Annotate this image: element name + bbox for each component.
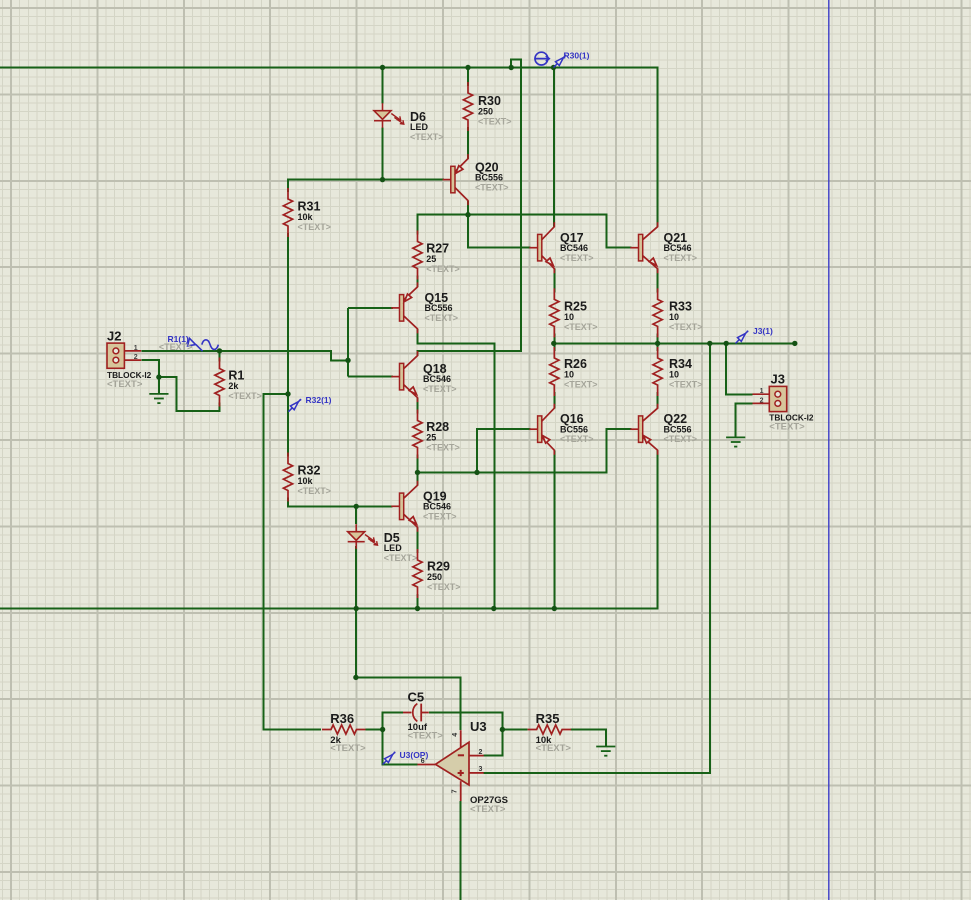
sheet border (blue) [828,0,830,900]
svg-text:<TEXT>: <TEXT> [410,132,444,142]
wire Q17 base from node y=214.7 [468,215,531,248]
wire R1 top from J2 pin1 node [219,351,221,362]
wire R29 bottom to bottom rail [417,594,419,609]
svg-text:<TEXT>: <TEXT> [669,322,703,332]
junction node R32(1) [285,391,290,396]
svg-text:10k: 10k [298,476,314,486]
svg-text:U3: U3 [470,719,487,734]
svg-text:2: 2 [760,397,764,404]
resistor R1 [215,358,224,407]
svg-text:4: 4 [452,733,459,737]
wire R33-R34 node [657,333,659,351]
resistor R33 [653,288,662,337]
wire Q15 base stub [348,307,393,309]
wire Q15 collector down to bottom rail via x=494.3 [418,329,495,609]
wire R35 right to ground [571,730,606,747]
label R30 250 [478,94,512,127]
wire R1 bottom loop to J2 pin2 ground node [159,377,220,411]
wire R27 bottom to Q15 emitter [417,276,419,288]
wire R25-R26 node [553,333,555,351]
wire node y=214.7 from R27 top across to Q21 base [418,215,632,248]
label Q19 BC546 [423,489,457,521]
transistor Q18 BC546 (NPN) [391,351,417,402]
junction top rail / D6 [380,65,385,70]
svg-text:<TEXT>: <TEXT> [426,264,460,274]
label Q21 BC546 [664,231,698,263]
transistor Q22 BC556 (PNP) [630,404,657,455]
label Q16 BC556 [560,412,594,444]
wire bottom negative rail y=608.5 with rise to Q22 emitter [0,450,658,608]
svg-text:25: 25 [426,433,436,443]
resistor R28 [413,410,422,459]
svg-text:BC556: BC556 [475,173,503,183]
svg-text:<TEXT>: <TEXT> [427,582,461,592]
svg-text:2: 2 [134,354,138,361]
wire Q19 emitter to R29 [417,527,419,553]
junction supply corner at opamp [353,675,358,680]
svg-text:BC546: BC546 [423,502,451,512]
transistor Q19 BC546 (NPN) [391,481,417,532]
junction top rail / Q17 collector [551,65,556,70]
voltage probe R30(1) [554,55,567,68]
wire Q17 collector up to top rail [553,68,555,227]
svg-text:<TEXT>: <TEXT> [107,379,143,390]
svg-text:<TEXT>: <TEXT> [475,182,509,192]
label U3 OP27GS [470,795,508,815]
transistor Q16 BC556 (PNP) [529,404,554,455]
svg-text:<TEXT>: <TEXT> [564,322,598,332]
svg-text:<TEXT>: <TEXT> [564,380,598,390]
svg-text:<TEXT>: <TEXT> [228,391,262,401]
svg-text:BC556: BC556 [560,424,588,434]
resistor R35 [528,725,572,734]
resistor R29 [413,549,422,598]
label Q17 BC546 [560,231,594,263]
wire opamp pin3 to mid rail [484,343,711,773]
wire node R32(1) branch left and down to R36 [263,394,321,730]
wire driver node y=472.4 across to Q22 base [418,429,632,472]
pin number U3-6 [421,758,425,765]
junction Q20 collector node [465,212,470,217]
junction mid rail / R25 R26 [551,341,556,346]
label U3 [470,719,487,734]
wire opamp pin2 to R35 node [484,730,503,756]
transistor Q17 BC546 (NPN) [529,222,554,273]
wire hop from rail junction over to long vertical x=521 feeding Q18 collector line [418,59,521,356]
transistor Q21 BC546 (NPN) [630,222,657,273]
junction driver node / Q16 base [474,470,479,475]
wire R31 top to Q20 base [288,180,444,192]
connector J3 TBLOCK-I2 [753,386,787,411]
transistor Q15 BC556 (PNP) [391,282,417,333]
label J2 TBLOCK-I2 [107,370,152,390]
generator probe R1(1) [188,338,219,351]
svg-text:10: 10 [564,312,574,322]
svg-text:250: 250 [478,107,493,117]
wire Q16 emitter down to bottom rail [553,450,555,608]
svg-text:<TEXT>: <TEXT> [159,342,193,352]
svg-text:R36: R36 [330,711,354,726]
svg-text:<TEXT>: <TEXT> [470,804,506,815]
ground symbol at J2 [149,394,168,403]
wire R35 node right [502,729,527,731]
svg-text:<TEXT>: <TEXT> [384,553,418,563]
wire C5 right to R35 node [429,713,503,730]
resistor R36 [322,725,366,734]
wire R36 right to node [366,729,383,731]
svg-text:C5: C5 [408,689,425,704]
wire R26 to Q16 collector [553,392,555,408]
resistor R34 [653,347,662,396]
svg-text:10k: 10k [298,212,314,222]
wire R32 bottom to Q19 base [288,498,393,507]
svg-text:<TEXT>: <TEXT> [560,434,594,444]
label J2 [107,328,121,343]
label Q20 BC556 [475,160,509,192]
label C5 10uf [408,689,444,741]
svg-text:<TEXT>: <TEXT> [423,511,457,521]
junction D6 cathode / Q20 base [380,177,385,182]
wire Q21 emitter to R33 [657,269,659,293]
junction top rail / hop [509,65,514,70]
label Q22 BC556 [664,412,698,444]
wire J3 pin1 from mid rail [726,343,752,394]
ground symbol at J3 [726,437,745,446]
label R1 2k [228,368,262,401]
svg-text:BC546: BC546 [560,243,588,253]
voltage probe J3(1) [736,330,749,343]
svg-text:LED: LED [384,543,403,553]
capacitor C5 [403,704,429,722]
label J3 [771,372,785,387]
svg-text:<TEXT>: <TEXT> [769,422,805,433]
wire J2 pin2 to ground node [141,360,159,394]
svg-text:J3(1): J3(1) [753,326,773,336]
wire Q15 base vertical [347,308,349,377]
wire R31 bottom down to R32 top [287,233,289,457]
label Q18 BC546 [423,362,457,394]
svg-text:J3: J3 [771,372,785,387]
op-amp U3 OP27GS [417,730,483,801]
wire J3 pin2 to ground [736,403,753,437]
junction mid rail / J3 [724,341,729,346]
svg-text:U3(OP): U3(OP) [400,750,429,760]
wire Q18 base stub [348,376,393,378]
svg-text:R35: R35 [536,711,560,726]
svg-text:BC546: BC546 [664,243,692,253]
junction bottom rail / D5 [354,606,359,611]
junction bottom rail / Q15 collector [491,606,496,611]
junction mid rail end [792,341,797,346]
svg-text:<TEXT>: <TEXT> [298,486,332,496]
pin number J2-2 [134,354,138,361]
svg-text:<TEXT>: <TEXT> [426,443,460,453]
svg-text:10: 10 [669,312,679,322]
svg-text:BC556: BC556 [425,303,453,313]
svg-text:2: 2 [479,749,483,756]
wire D6 anode from top rail [382,68,384,104]
label J3 TBLOCK-I2 [769,413,814,433]
svg-text:<TEXT>: <TEXT> [478,117,512,127]
wire Q17 emitter to R25 [553,269,555,293]
wire Q20 collector to mid node y=214.7 [467,201,469,215]
current probe marker at R30(1) [534,52,549,65]
svg-text:<TEXT>: <TEXT> [330,743,366,754]
svg-text:BC556: BC556 [664,424,692,434]
junction top rail / R30 [465,65,470,70]
junction R36 / C5 / opamp out [380,727,385,732]
label D5 LED [384,531,418,563]
wire top positive rail y=67.5 with drop to Q21 collector [0,68,658,227]
svg-text:<TEXT>: <TEXT> [408,731,444,742]
label R25 10 [564,299,598,332]
wire D6 cathode down to Q20 base node [382,128,384,180]
LED D6 [374,103,404,128]
junction mid rail / opamp pin3 [707,341,712,346]
svg-text:<TEXT>: <TEXT> [423,384,457,394]
wire D5 anode from Q19 base node [355,506,357,524]
label R32 10k [298,463,332,496]
svg-text:10: 10 [669,370,679,380]
wire Q19 collector to driver node [417,472,419,485]
svg-text:1: 1 [760,388,764,395]
svg-text:<TEXT>: <TEXT> [536,743,572,754]
pin number J3-1 [760,388,764,395]
label R28 25 [426,420,460,453]
pin number U3-2 [479,749,483,756]
junction bottom rail / Q16 emitter [552,606,557,611]
wire D5 cathode down to bottom rail and on to opamp supply [356,546,461,730]
junction Q15/Q18 base node [345,358,350,363]
wire opamp pin7 down off sheet [460,801,462,900]
junction driver node / R28 Q19 [415,470,420,475]
wire mid output rail y=343.4 [554,342,795,344]
svg-text:<TEXT>: <TEXT> [664,434,698,444]
pin number U3-3 [479,766,483,773]
junction mid rail / R33 R34 [655,341,660,346]
svg-text:J2: J2 [107,328,121,343]
connector J2 TBLOCK-I2 [107,343,141,368]
resistor R25 [550,288,559,337]
svg-text:7: 7 [451,789,458,793]
label R29 250 [427,559,461,592]
svg-text:1: 1 [134,345,138,352]
resistor R26 [550,347,559,396]
LED D5 [348,524,378,549]
pin number U3-4 [452,733,459,737]
wire Q16 base from driver node [477,429,531,472]
label R27 25 [426,241,460,274]
resistor R30 [463,82,472,131]
label R26 10 [564,357,598,390]
junction J2 pin2 ground node [156,374,161,379]
wire R34 to Q22 collector [657,392,659,408]
pin number J3-2 [760,397,764,404]
wire J2 pin1 net to Q15/Q18 base node [141,351,348,360]
label D6 LED [410,110,444,142]
svg-text:10: 10 [564,370,574,380]
transistor Q20 BC556 (PNP) [443,154,468,205]
junction C5 / R35 / opamp pin2 [500,727,505,732]
voltage probe U3(OP) [383,752,396,765]
voltage probe R32(1) [288,399,301,412]
svg-text:250: 250 [427,572,442,582]
svg-text:<TEXT>: <TEXT> [560,253,594,263]
svg-text:<TEXT>: <TEXT> [669,380,703,390]
pin number U3-7 [451,789,458,793]
svg-text:<TEXT>: <TEXT> [664,253,698,263]
resistor R31 [283,188,292,237]
wire R28 bottom to driver node [417,455,419,473]
label Q15 BC556 [425,291,459,323]
ground symbol at R35 [596,747,615,756]
svg-text:BC546: BC546 [423,374,451,384]
svg-text:<TEXT>: <TEXT> [298,222,332,232]
junction J2 pin1 / R1 [217,348,222,353]
label R35 10k [536,711,572,754]
wire node down to opamp output pin 6 [383,730,418,765]
wire Q20 emitter up to R30 [467,127,469,159]
resistor R32 [283,453,292,502]
wire R30 top stub to rail [467,68,469,87]
label R36 2k [330,711,366,754]
label R34 10 [669,357,703,390]
svg-text:2k: 2k [228,381,239,391]
svg-text:<TEXT>: <TEXT> [425,313,459,323]
svg-text:3: 3 [479,766,483,773]
pin number J2-1 [134,345,138,352]
wire Q18 emitter to R28 [417,398,419,414]
resistor R27 [413,231,422,280]
wire C5 left to R36 node [383,713,403,730]
svg-text:LED: LED [410,122,429,132]
svg-text:R32(1): R32(1) [306,395,332,405]
svg-text:25: 25 [426,254,436,264]
label R31 10k [298,199,332,232]
svg-text:R30(1): R30(1) [564,51,590,61]
junction Q19 base / D5 [354,504,359,509]
junction bottom rail / R29 [415,606,420,611]
label R33 10 [669,299,703,332]
